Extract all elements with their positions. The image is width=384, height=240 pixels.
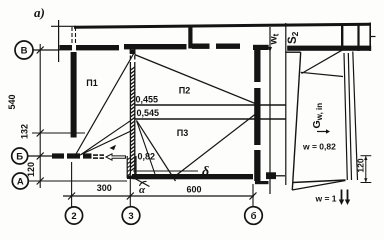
svg-text:П1: П1: [86, 78, 97, 88]
svg-text:0,545: 0,545: [137, 108, 160, 118]
svg-text:П2: П2: [179, 86, 190, 96]
svg-text:а): а): [34, 5, 45, 20]
svg-text:600: 600: [186, 185, 201, 195]
svg-text:120: 120: [356, 158, 366, 172]
svg-text:0,82: 0,82: [138, 152, 156, 162]
svg-text:А: А: [17, 177, 24, 188]
svg-text:б: б: [251, 211, 257, 222]
svg-text:132: 132: [20, 124, 30, 139]
svg-text:δ: δ: [202, 165, 209, 180]
svg-text:300: 300: [97, 183, 112, 193]
svg-text:α: α: [139, 184, 146, 196]
svg-text:Б: Б: [16, 152, 23, 163]
svg-text:120: 120: [26, 162, 36, 177]
svg-text:540: 540: [7, 94, 17, 109]
svg-text:П3: П3: [177, 128, 188, 138]
svg-text:В: В: [21, 46, 28, 57]
svg-text:w = 0,82: w = 0,82: [302, 142, 336, 152]
svg-text:0,455: 0,455: [136, 94, 159, 104]
svg-text:3: 3: [128, 211, 133, 222]
svg-text:2: 2: [71, 211, 76, 222]
svg-text:w = 1: w = 1: [315, 194, 337, 204]
